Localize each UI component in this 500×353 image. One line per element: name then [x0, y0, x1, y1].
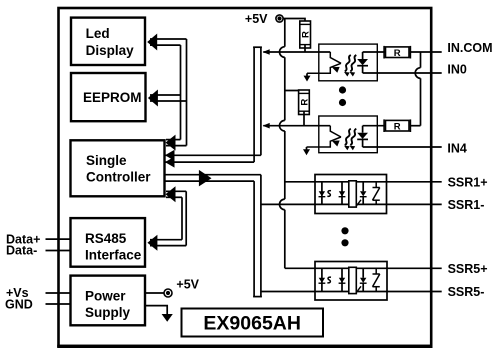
resistor R2 (vertical) — [299, 90, 311, 115]
input bus pair (to controller) — [165, 47, 262, 162]
svg-text:+5V: +5V — [245, 12, 268, 26]
wire OC1 LED top to resistor R3 — [363, 51, 386, 53]
svg-text:IN4: IN4 — [447, 141, 467, 155]
wire channel1 rail from bus to optocoupler — [263, 51, 330, 53]
output bus pair (from controller to SSR section) — [165, 175, 262, 297]
OC1 phototransistor — [307, 52, 341, 73]
arrow into RS485 interface — [147, 235, 157, 251]
svg-text:Led: Led — [86, 26, 110, 41]
Led Display feedback bus — [150, 39, 187, 146]
svg-text:Display: Display — [86, 43, 135, 58]
wire +Vs to Power Supply — [46, 292, 71, 294]
part number box EX9065AH — [182, 309, 324, 337]
arrow into controller (from display bus) — [166, 135, 176, 151]
svg-text:Supply: Supply — [85, 305, 130, 320]
svg-text:Single: Single — [86, 153, 127, 168]
svg-text:SSR1-: SSR1- — [448, 198, 485, 212]
svg-text:R: R — [300, 31, 311, 38]
wire R1 bottom stub — [304, 45, 306, 52]
arrow out of controller (output bus) — [199, 170, 212, 187]
svg-text:EX9065AH: EX9065AH — [203, 313, 301, 335]
svg-text:IN0: IN0 — [447, 63, 467, 77]
block Power Supply — [71, 276, 146, 326]
OC1 light squiggles — [343, 55, 356, 76]
svg-text:GND: GND — [5, 298, 33, 312]
wire SSR5- — [387, 291, 442, 293]
arrow into input bus (channel 1) — [263, 49, 270, 55]
wire SSR1+ — [387, 181, 442, 183]
optocoupler OC1 box — [319, 44, 378, 81]
svg-text:+5V: +5V — [176, 277, 199, 291]
OC2 LED diode — [357, 126, 368, 147]
resistor R4 (horizontal) — [384, 119, 410, 132]
block EEPROM — [71, 73, 146, 121]
wire IN.COM — [410, 51, 441, 53]
solid state relay SSR1 — [315, 175, 387, 214]
power terminal +5V top — [245, 12, 283, 26]
RS485 link bus — [150, 191, 186, 245]
module outer border — [59, 8, 432, 346]
arrow into controller (input bus upper) — [165, 150, 175, 161]
IN.COM to R4 vertical wire with hop over IN0 — [415, 52, 420, 126]
svg-text:SSR1+: SSR1+ — [448, 175, 488, 189]
arrow into input bus (channel 2) — [263, 123, 270, 129]
svg-text:R: R — [394, 48, 401, 59]
arrow into EEPROM — [148, 90, 158, 107]
wire +5V to resistor R1 top — [283, 19, 305, 22]
+5V distribution vertical wire with hops — [279, 19, 284, 269]
wire SSR1- — [387, 203, 442, 205]
power +5V output terminal — [145, 277, 200, 297]
svg-text:R: R — [394, 122, 401, 133]
svg-text:Power: Power — [85, 289, 126, 304]
wire SSR5+ — [387, 267, 442, 269]
vertical dots between SSR channels — [341, 227, 348, 234]
optocoupler OC2 box — [319, 116, 378, 153]
wire IN4 — [363, 146, 442, 148]
wire IN0 — [363, 72, 442, 74]
SSR1 drive wire (top) — [285, 181, 315, 183]
block RS485 Interface — [71, 218, 146, 267]
wire channel2 rail from bus to optocoupler — [263, 125, 330, 127]
svg-text:EEPROM: EEPROM — [83, 90, 142, 105]
svg-text:Controller: Controller — [86, 170, 151, 185]
arrow into controller (input bus lower) — [165, 157, 175, 168]
wire GND to Power Supply — [46, 303, 71, 305]
arrow into controller (from RS485) — [166, 186, 176, 202]
wire Data- to RS485 — [46, 250, 71, 252]
wire Data+ to RS485 — [46, 238, 71, 240]
arrow into Led Display — [147, 34, 157, 51]
svg-text:SSR5+: SSR5+ — [448, 262, 488, 276]
module border bottom thick edge — [57, 345, 432, 348]
OC2 down arrow (emitter to logic) — [303, 147, 310, 155]
power supply down arrow — [145, 306, 173, 322]
svg-text:IN.COM: IN.COM — [447, 41, 492, 55]
wire OC2 LED top to resistor R4 — [363, 125, 386, 127]
svg-text:Data-: Data- — [6, 243, 37, 257]
OC1 LED diode — [357, 52, 368, 73]
wire R4 right to IN.COM riser — [410, 125, 420, 127]
OC1 down arrow (emitter to logic) — [304, 73, 311, 81]
resistor R1 (vertical) — [300, 21, 312, 48]
SSR5 return wire (bottom) — [261, 291, 315, 293]
resistor R3 (horizontal, IN.COM) — [384, 46, 410, 59]
wire +5V branch to resistor R2 — [285, 90, 304, 92]
wire R2 bottom stub — [303, 111, 305, 126]
svg-text:RS485: RS485 — [85, 231, 127, 246]
solid state relay SSR5 — [315, 262, 387, 301]
OC2 light squiggles — [343, 129, 356, 150]
block Led Display — [71, 18, 145, 65]
SSR5 drive wire (top) — [285, 267, 315, 269]
svg-text:Interface: Interface — [85, 248, 142, 263]
svg-text:R: R — [299, 99, 310, 106]
OC2 phototransistor — [307, 126, 342, 147]
vertical dots between input channels — [339, 86, 346, 93]
block Single Controller U1 — [71, 140, 165, 196]
SSR1 return wire (bottom) — [261, 203, 315, 205]
svg-text:SSR5-: SSR5- — [448, 285, 485, 299]
